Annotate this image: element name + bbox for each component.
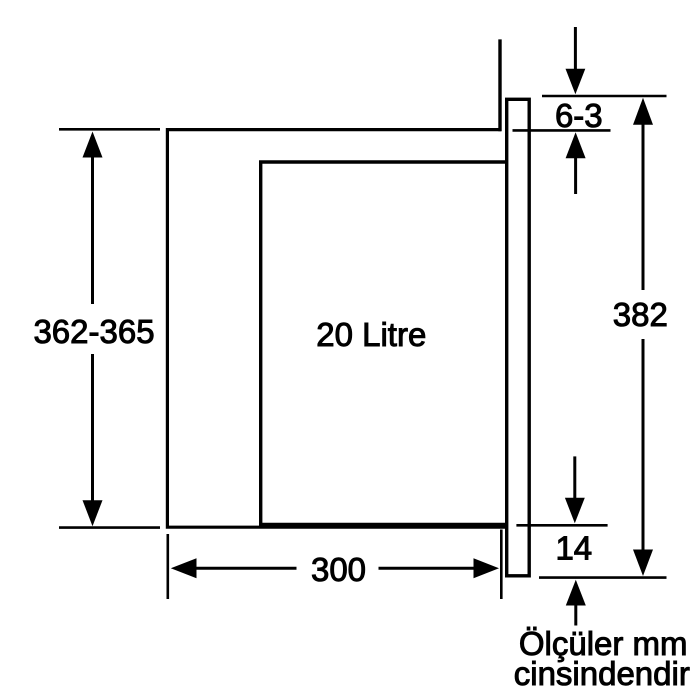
extension line 382 bottom (shared with 14 lower)	[539, 576, 667, 579]
extension line 382 top (shared with 6-3 upper)	[542, 95, 667, 98]
dimension 362-365 lower arrow tail	[91, 354, 94, 502]
dimension 14 lower arrowhead	[566, 580, 586, 606]
extension line 300 left	[167, 534, 170, 599]
svg-text:20 Litre: 20 Litre	[316, 316, 426, 353]
dimension 362-365 upper arrowhead	[83, 132, 103, 158]
dimension 362-365 upper arrow tail	[91, 154, 94, 304]
dimension 14 lower arrow tail	[574, 603, 577, 626]
dimension 382 lower tail	[642, 339, 645, 553]
wall line (top right vertical)	[498, 39, 501, 131]
svg-text:362-365: 362-365	[33, 313, 154, 350]
dimension 382 upper tail	[642, 122, 645, 290]
svg-text:300: 300	[311, 551, 366, 588]
dimension 6-3 upper arrow tail	[574, 27, 577, 70]
svg-text:6-3: 6-3	[555, 97, 603, 134]
dimension 300 right tail	[379, 567, 477, 570]
svg-text:382: 382	[613, 296, 668, 333]
svg-text:cinsindendir: cinsindendir	[514, 655, 690, 692]
extension line 300 right	[500, 530, 503, 600]
dimension 14 upper arrowhead	[565, 498, 585, 523]
dimension 300 left arrowhead	[171, 558, 197, 578]
front panel rectangle	[507, 99, 530, 576]
dimension 362-365 lower arrowhead	[83, 500, 103, 526]
extension line 6-3 lower	[513, 129, 611, 132]
extension line 14 top	[516, 524, 607, 527]
svg-text:14: 14	[555, 530, 592, 567]
extension line top-left (362-365 upper)	[59, 128, 160, 131]
dimension 14 upper arrow tail	[573, 456, 576, 500]
dimension 382 lower arrowhead	[633, 550, 653, 577]
dimension 300 left tail	[194, 567, 297, 570]
dimension 6-3 lower arrowhead	[566, 132, 586, 158]
dimension 6-3 upper arrowhead	[566, 69, 586, 95]
extension line bottom-left (362-365 lower)	[59, 526, 160, 529]
dimension 300 right arrowhead	[474, 558, 500, 578]
dimension 382 upper arrowhead	[633, 98, 653, 125]
cavity outline (inner rectangle, open right)	[261, 162, 507, 525]
niche outline (outer rectangle, open right)	[167, 130, 505, 528]
dimension 6-3 lower arrow tail	[574, 156, 577, 194]
